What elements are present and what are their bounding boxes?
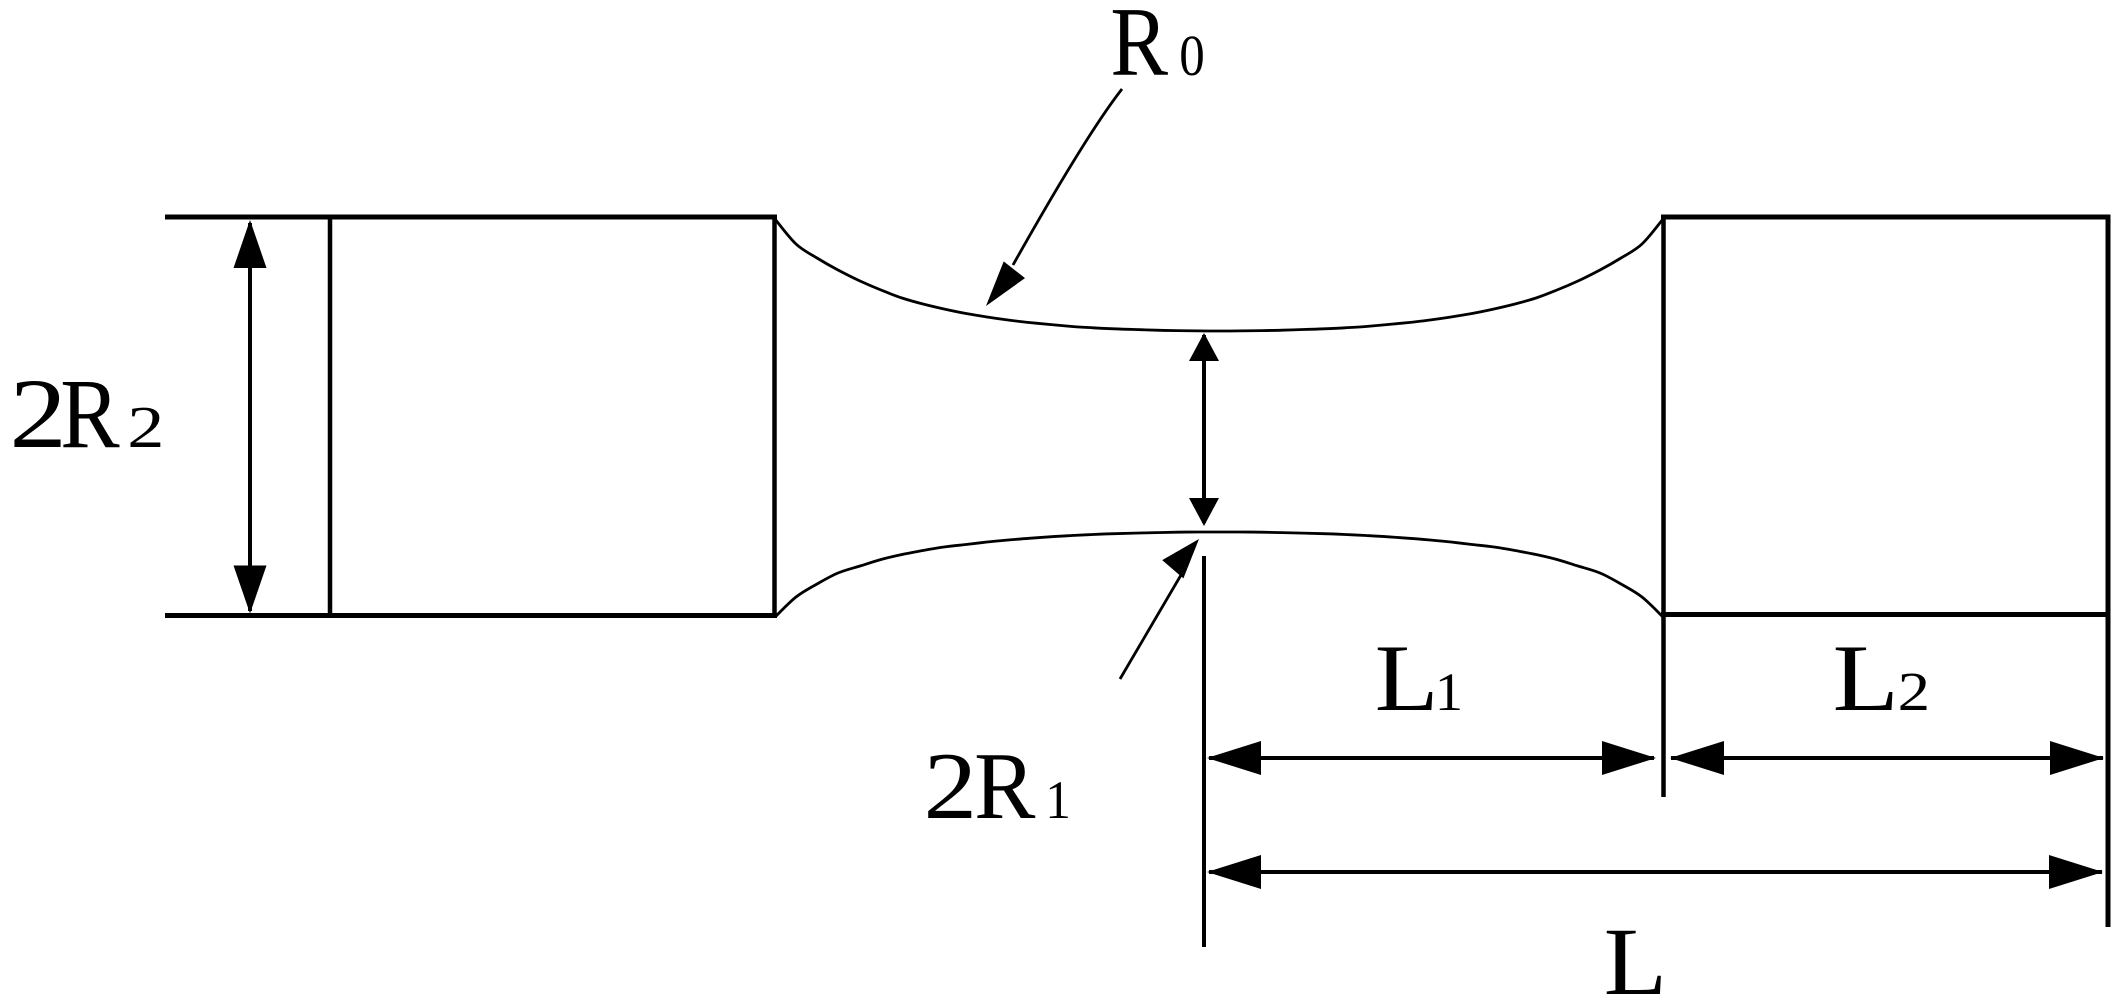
left grip block left edge: [328, 215, 333, 619]
svg-text:L: L: [1604, 908, 1667, 1006]
svg-text:R: R: [1110, 0, 1168, 97]
L1 left arrowhead: [1207, 741, 1261, 775]
dimension 2R2 upper arrowhead: [234, 220, 267, 268]
L2 dimension line: [1671, 756, 2103, 760]
upper neck profile curve (radius R0): [775, 219, 1663, 331]
R0 leader arrowhead pointing to upper curve: [986, 261, 1025, 306]
L left arrowhead: [1207, 855, 1261, 889]
left grip block top edge with 2R2 extension line: [165, 215, 777, 220]
L2 left arrowhead: [1670, 741, 1724, 775]
right grip block top edge: [1661, 215, 2111, 220]
left grip block bottom edge with 2R2 extension line: [165, 613, 777, 618]
L1 dimension line: [1209, 756, 1654, 760]
svg-text:1: 1: [1435, 662, 1463, 721]
svg-text:2: 2: [9, 359, 66, 469]
2R1 leader line: [1120, 575, 1181, 679]
neck diameter upper arrowhead: [1189, 333, 1219, 361]
neck diameter dimension stem at x=1204: [1202, 335, 1206, 523]
dimension 2R2 vertical stem: [248, 223, 252, 611]
svg-text:R: R: [60, 359, 119, 469]
dimension 2R2 lower arrowhead: [234, 566, 267, 614]
2R1 leader arrowhead pointing to lower curve: [1162, 539, 1199, 578]
neck diameter lower arrowhead: [1189, 498, 1219, 526]
right grip block right edge with extension line down to L dimension: [2106, 215, 2111, 928]
L right arrowhead: [2049, 855, 2103, 889]
left grip block right edge: [772, 215, 777, 619]
right grip block left edge with extension line down to L1 dimension: [1661, 215, 1666, 798]
svg-text:0: 0: [1179, 23, 1205, 88]
L2 right arrowhead: [2050, 741, 2104, 775]
svg-text:1: 1: [1045, 771, 1071, 830]
svg-text:L: L: [1833, 626, 1899, 731]
overall length L dimension line: [1209, 870, 2102, 874]
L1 right arrowhead: [1602, 741, 1656, 775]
svg-text:L: L: [1375, 625, 1439, 731]
svg-text:2: 2: [1898, 662, 1930, 723]
lower neck profile curve: [775, 532, 1663, 617]
R0 leader line (slightly bowed): [1013, 89, 1122, 265]
right grip block bottom edge: [1661, 612, 2111, 617]
svg-text:2: 2: [127, 394, 164, 460]
extension line below neck centre down to L dimension: [1202, 556, 1206, 947]
svg-text:R: R: [974, 735, 1036, 840]
svg-text:2: 2: [924, 734, 978, 839]
